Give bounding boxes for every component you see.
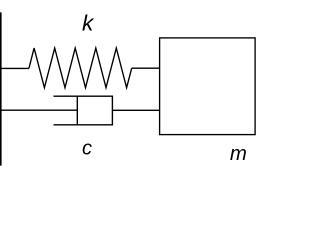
- svg-text:c: c: [82, 138, 92, 160]
- wire: spring left lead: [1, 67, 29, 69]
- damper c cylinder: [54, 96, 113, 125]
- damper piston plate: [76, 96, 78, 125]
- mass m (block): [160, 38, 256, 135]
- spring k (zigzag): [29, 48, 132, 88]
- svg-text:k: k: [82, 11, 95, 36]
- wall (fixed support): [0, 12, 2, 165]
- svg-text:m: m: [230, 143, 247, 165]
- wire: spring right lead to mass: [132, 67, 160, 69]
- wire: damper right rod to mass: [112, 109, 159, 111]
- wire: damper left rod: [1, 109, 77, 111]
